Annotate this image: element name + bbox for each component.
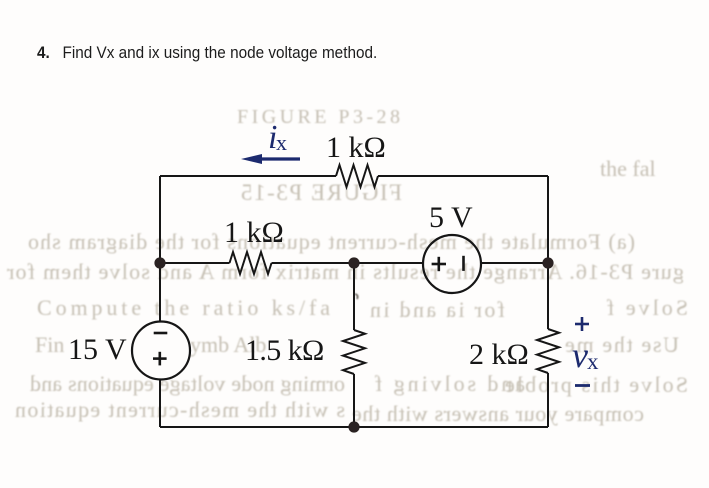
voltage source V2 5V circle: [423, 235, 481, 293]
stray tick mark above 1.5k resistor: [355, 294, 358, 299]
V1 minus sign: [154, 332, 168, 335]
svg-text:FIGURE P3-28: FIGURE P3-28: [237, 106, 400, 128]
wire right vertical upper: [547, 176, 549, 329]
resistor R2 1 kOhm (middle): [230, 252, 272, 274]
svg-text:x: x: [276, 130, 287, 155]
svg-text:1.5 kΩ: 1.5 kΩ: [245, 334, 324, 367]
wire bottom: [160, 426, 548, 428]
svg-text:s with the mesh-current equati: s with the mesh-current equation: [15, 397, 345, 422]
svg-text:v: v: [572, 335, 588, 375]
svg-text:compare your answers with the: compare your answers with the: [352, 401, 644, 426]
svg-text:15 V: 15 V: [68, 333, 127, 366]
svg-text:orming node voltage equations: orming node voltage equations and: [30, 371, 345, 396]
voltage label vx plus: [575, 323, 589, 326]
node A junction dot: [154, 257, 165, 268]
wire top right segment: [378, 175, 548, 177]
wire branch 1.5k upper: [353, 263, 355, 330]
resistor R4 2 kOhm (vertical): [537, 329, 559, 373]
svg-text:x: x: [587, 349, 599, 374]
wire middle segment to source: [272, 262, 424, 264]
V2 plus sign: [432, 263, 446, 266]
svg-text:1 kΩ: 1 kΩ: [224, 216, 284, 249]
svg-text:(a) Formulate the mesh-current: (a) Formulate the mesh-current equations…: [28, 229, 635, 254]
svg-text:Compute the ratio ks/fa: Compute the ratio ks/fa: [37, 295, 330, 320]
svg-text:for ia and in: for ia and in: [370, 297, 505, 322]
wire top left segment: [160, 175, 336, 177]
wire left vertical upper: [159, 176, 161, 322]
resistor R3 1.5 kOhm (vertical): [343, 330, 365, 374]
wire left vertical lower: [159, 380, 161, 428]
V1 plus sign: [153, 357, 167, 360]
svg-text:Solve this proble: Solve this proble: [505, 372, 688, 397]
node B junction dot: [348, 257, 359, 268]
svg-text:Solve f: Solve f: [606, 295, 688, 320]
wire middle segment from node A: [160, 262, 230, 264]
node C junction dot: [542, 257, 553, 268]
current arrow ix: [258, 157, 300, 160]
V2 minus bar: [462, 256, 465, 271]
svg-text:2 kΩ: 2 kΩ: [469, 338, 529, 371]
ghost bleed-through text layer: [6, 106, 688, 426]
node D junction dot (bottom): [348, 421, 359, 432]
svg-text:1 kΩ: 1 kΩ: [326, 131, 386, 164]
wire branch 1.5k lower: [353, 374, 355, 427]
wire middle right segment: [481, 262, 548, 264]
svg-text:the fal: the fal: [600, 156, 656, 181]
svg-text:FIGURE P3-15: FIGURE P3-15: [241, 180, 402, 205]
wire right vertical lower: [547, 373, 549, 427]
voltage label vx minus: [575, 384, 590, 387]
voltage source V1 15V circle: [132, 322, 190, 380]
svg-text:5 V: 5 V: [429, 201, 473, 234]
svg-text:Fin: Fin: [35, 332, 64, 357]
resistor R1 1 kOhm (top): [336, 165, 378, 187]
svg-text:and solving f: and solving f: [374, 371, 525, 396]
